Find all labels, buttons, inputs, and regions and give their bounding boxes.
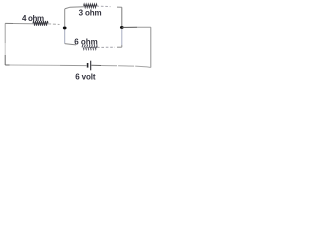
- wire: right vertical side: [150, 27, 152, 67]
- svg-text:4 ohm: 4 ohm: [22, 14, 44, 23]
- wire: bottom left horizontal to battery: [60, 64, 87, 66]
- wire: left vertical side lower segment: [4, 55, 6, 65]
- wire: top-left corner tick: [5, 22, 13, 24]
- wire: bottom left horizontal light segment: [10, 64, 61, 66]
- wire: bottom left corner tick: [5, 64, 9, 66]
- svg-text:3 ohm: 3 ohm: [79, 8, 102, 17]
- wire: bottom right dark tick after battery: [91, 64, 101, 66]
- wire: short segment into top-right corner: [117, 6, 122, 8]
- wire: middle vertical upper (node A column): [64, 9, 66, 26]
- battery V1 short plate: [87, 63, 89, 68]
- wire: top-left horizontal to 4 ohm resistor: [13, 23, 33, 25]
- svg-text:6 volt: 6 volt: [75, 73, 96, 82]
- resistor R3 6 ohm zigzag: [82, 45, 98, 49]
- wire: short segment joining node B column: [117, 46, 122, 48]
- wire: faint dashes from 3 ohm resistor: [97, 5, 111, 8]
- wire: 6 ohm branch lead from node A column: [65, 44, 76, 45]
- wire: top branch lead from node A column to 3 ohm resistor: [65, 7, 84, 9]
- wire: horizontal light part into right corner: [137, 26, 151, 28]
- wire: middle vertical lower bluish segment: [64, 26, 66, 44]
- wire: right-upper vertical from corner to node B: [121, 7, 123, 27]
- node B junction dot: [120, 26, 124, 29]
- node A junction dot: [63, 26, 67, 29]
- wire: bottom right horizontal to right corner: [101, 66, 151, 68]
- wire: left vertical side upper segment: [4, 23, 6, 43]
- battery V1 long plate: [90, 61, 92, 71]
- wire: node B column lower bluish segment: [121, 27, 123, 45]
- wire: node B to top-right corner horizontal dark part: [122, 26, 137, 28]
- wire: node B column bottom tick: [121, 45, 123, 47]
- wire: faint dashes from 6 ohm resistor toward node B column: [97, 46, 115, 48]
- wire: left vertical side faint middle segment: [4, 43, 6, 55]
- resistor R1 4 ohm zigzag: [33, 21, 48, 26]
- svg-text:6 ohm: 6 ohm: [74, 37, 98, 46]
- resistor R2 3 ohm zigzag: [84, 4, 97, 8]
- wire: faint dashes from 4 ohm resistor toward node A: [48, 23, 59, 26]
